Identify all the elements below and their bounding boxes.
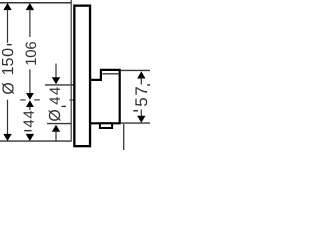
top extension line [0, 2, 72, 4]
label Ø 150 [2, 49, 13, 57]
wall line [70, 0, 72, 141]
label 57 [135, 87, 147, 95]
extension line handle-bottom-left y123.6 [47, 123, 72, 125]
lower vertical line [123, 124, 125, 150]
dimension line 44 [23, 100, 34, 141]
label 44 [23, 111, 33, 119]
dimension line 106 [25, 3, 36, 100]
dimension line Ø44 [49, 64, 66, 142]
plate (side view) [74, 6, 90, 147]
label Ø 44 [50, 87, 60, 95]
label 106 [25, 42, 36, 49]
mid extension line y100 [20, 99, 74, 101]
bottom extension line [0, 140, 72, 142]
extension line handle-top-left y84.9 [45, 84, 74, 86]
extension line 57 top [121, 69, 150, 71]
dimension line Ø150 [2, 3, 14, 141]
handle tab [100, 123, 112, 128]
extension line 57 bottom [121, 122, 150, 124]
dimension line 57 [133, 71, 150, 122]
handle outline [91, 70, 120, 123]
handle parting line [102, 73, 119, 75]
